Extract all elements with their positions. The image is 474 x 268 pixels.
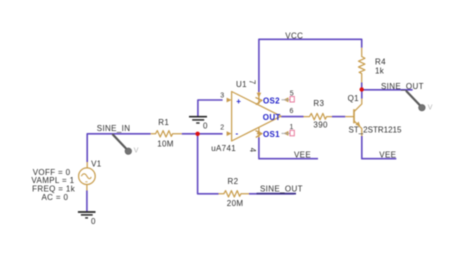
svg-text:6: 6: [290, 108, 294, 115]
svg-text:7: 7: [248, 80, 257, 84]
svg-text:R2: R2: [228, 177, 239, 186]
svg-text:10M: 10M: [157, 139, 174, 148]
svg-text:1k: 1k: [375, 67, 385, 76]
svg-text:4: 4: [248, 148, 257, 153]
svg-text:uA741: uA741: [211, 144, 236, 153]
svg-text:390: 390: [313, 121, 328, 130]
svg-text:OUT: OUT: [263, 113, 281, 122]
svg-text:VEE: VEE: [294, 150, 311, 159]
svg-text:SINE_OUT: SINE_OUT: [381, 82, 424, 91]
svg-text:V: V: [428, 104, 433, 111]
svg-text:OS2: OS2: [263, 97, 280, 106]
svg-text:Q1: Q1: [348, 94, 360, 103]
svg-text:ST_2STR1215: ST_2STR1215: [349, 125, 402, 134]
svg-text:+: +: [236, 97, 241, 106]
svg-text:R3: R3: [313, 99, 324, 108]
svg-text:2: 2: [220, 125, 224, 132]
svg-text:-: -: [236, 129, 239, 138]
svg-text:VEE: VEE: [379, 150, 396, 159]
svg-text:OS1: OS1: [263, 130, 280, 139]
svg-text:SINE_OUT: SINE_OUT: [260, 185, 303, 194]
svg-text:5: 5: [290, 91, 294, 98]
svg-text:V: V: [134, 147, 139, 154]
svg-text:0: 0: [203, 122, 208, 131]
svg-text:0: 0: [91, 217, 96, 226]
svg-text:3: 3: [220, 93, 224, 100]
svg-text:VCC: VCC: [285, 31, 303, 40]
svg-text:1: 1: [290, 124, 294, 131]
svg-text:U1: U1: [236, 80, 247, 89]
svg-text:SINE_IN: SINE_IN: [97, 124, 131, 133]
svg-text:AC = 0: AC = 0: [42, 193, 69, 202]
svg-text:V1: V1: [91, 160, 102, 169]
svg-text:20M: 20M: [227, 199, 244, 208]
svg-text:R1: R1: [158, 118, 169, 127]
svg-text:R4: R4: [375, 57, 386, 66]
